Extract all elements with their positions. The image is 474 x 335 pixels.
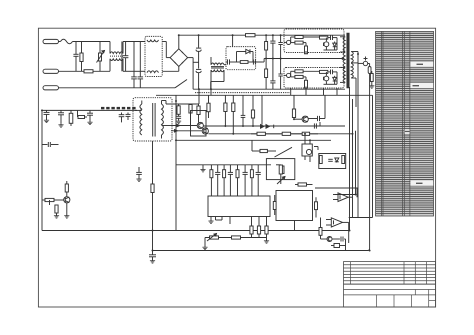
- resistor R22: [236, 165, 239, 196]
- switch S2: [275, 147, 293, 157]
- wire: [294, 221, 296, 231]
- trimmer R27: [277, 176, 285, 184]
- wire: [42, 110, 137, 230]
- capacitor C34: [241, 95, 246, 126]
- snubber network: [226, 47, 256, 70]
- varistor RV1: [97, 42, 105, 72]
- capacitor C30: [136, 167, 142, 181]
- bridge rectifier VD1: [170, 49, 188, 67]
- wire arrow: [171, 124, 197, 126]
- ground: [54, 215, 59, 219]
- wire: [121, 42, 123, 72]
- switch cell Q2 group: [284, 68, 344, 89]
- wire: [42, 230, 350, 232]
- wire: [229, 217, 231, 225]
- resistor R36: [50, 200, 59, 215]
- wire: [352, 99, 354, 218]
- wire: [203, 125, 345, 127]
- capacitor C31: [149, 251, 156, 263]
- wire: [166, 42, 170, 58]
- transistor V4: [54, 197, 70, 203]
- wire gate1: [290, 88, 292, 95]
- diode VD2: [237, 49, 254, 62]
- capacitor C6: [196, 35, 201, 68]
- fuse F1: [61, 39, 111, 44]
- transistor V1: [197, 122, 203, 128]
- capacitor C41 upper: [278, 35, 282, 58]
- connector pin X1.2: [43, 69, 84, 73]
- resistor R30: [257, 217, 260, 238]
- capacitor C33: [332, 237, 346, 242]
- capacitor C18: [308, 95, 325, 121]
- resistor R47: [207, 95, 210, 118]
- driver box: [191, 111, 207, 137]
- transformer T1 core: [347, 33, 350, 88]
- resistor R33: [232, 236, 241, 239]
- optocoupler U2: [302, 134, 312, 162]
- wire: [153, 250, 369, 252]
- resistor R1: [80, 42, 83, 72]
- wire: [355, 78, 357, 107]
- wire: [175, 95, 177, 230]
- capacitor bank C14: [101, 107, 136, 109]
- inductor L3: [358, 57, 370, 66]
- capacitor C41 lower: [278, 59, 282, 90]
- resistor R34: [65, 181, 68, 196]
- PWM controller U1: [208, 196, 270, 217]
- wire dashed: [195, 92, 290, 94]
- resistor R11: [232, 95, 235, 134]
- resistor R16: [319, 156, 322, 164]
- ground: [0, 0, 1, 1]
- resistor R35: [42, 198, 54, 201]
- feedback box U6a: [266, 159, 294, 180]
- resistor R43: [246, 34, 256, 37]
- resistor R42: [189, 104, 192, 126]
- resistor R40: [281, 166, 284, 174]
- transformer T2: [211, 57, 226, 89]
- wire: [166, 101, 199, 105]
- wire: [178, 66, 180, 71]
- connector pin X1.1: [43, 39, 61, 43]
- capacitor C21: [215, 165, 220, 196]
- wire gate2: [305, 88, 307, 95]
- wire: [357, 54, 359, 218]
- capacitor C23: [228, 165, 233, 196]
- wire: [261, 95, 263, 124]
- resistor R45: [176, 104, 181, 124]
- resistor R17: [342, 156, 345, 164]
- sub box U3: [319, 154, 346, 169]
- resistor R10: [224, 95, 227, 126]
- resistor R14: [302, 132, 318, 135]
- capacitor C13: [87, 110, 93, 124]
- capacitor C40 upper: [270, 35, 275, 58]
- resistor R4 upper: [265, 35, 268, 58]
- capacitor C19: [328, 159, 333, 161]
- resistor R46: [369, 71, 374, 88]
- wire: [176, 165, 271, 168]
- transistor V2: [202, 128, 208, 134]
- resistor R2: [84, 70, 110, 73]
- resistor R3: [233, 61, 253, 64]
- capacitor C2: [123, 42, 129, 72]
- wire: [232, 35, 234, 46]
- resistor R26: [279, 165, 282, 176]
- ground: [202, 238, 207, 250]
- wire trimmer row: [252, 140, 276, 152]
- capacitor C12: [58, 110, 64, 127]
- resistor R37: [151, 184, 154, 193]
- capacitor C10: [368, 64, 371, 74]
- resistor R29: [250, 217, 253, 238]
- wire +bus: [179, 34, 345, 36]
- op-amp U5: [326, 218, 349, 227]
- capacitor C40 lower: [270, 59, 275, 90]
- wire: [315, 187, 358, 189]
- capacitor C9: [253, 59, 262, 64]
- resistor R38: [319, 218, 322, 240]
- small box U8: [331, 244, 346, 248]
- wire: [176, 139, 331, 141]
- wire: [156, 94, 373, 96]
- trimmer R32: [207, 234, 219, 242]
- sub box U6: [273, 191, 312, 221]
- diode VD4: [335, 158, 339, 162]
- wire: [372, 95, 374, 217]
- capacitor C16: [119, 113, 125, 123]
- wire: [152, 141, 154, 251]
- transistor V5: [321, 237, 333, 242]
- capacitor C1: [73, 42, 78, 72]
- resistor R44: [78, 110, 88, 118]
- capacitor C25: [243, 165, 248, 196]
- wire gate4: [336, 88, 338, 95]
- resistor R18: [210, 165, 213, 196]
- capacitor C27: [256, 165, 261, 196]
- wire: [357, 52, 359, 55]
- wire: [314, 147, 318, 151]
- transistor V3: [294, 116, 308, 122]
- resistor R9: [197, 104, 200, 122]
- ground: [64, 203, 69, 218]
- connector pin X1.3: [43, 86, 175, 90]
- resistor R15: [292, 95, 295, 119]
- wire: [276, 164, 281, 166]
- title block: [344, 262, 436, 307]
- capacitor C4: [131, 42, 137, 88]
- switch S1: [175, 80, 187, 88]
- wire: [0, 0, 1, 1]
- capacitor C7: [196, 69, 201, 89]
- resistor R24: [250, 165, 253, 196]
- common-mode choke L1: [110, 42, 145, 72]
- resistor R31: [265, 217, 268, 238]
- wire: [0, 0, 1, 1]
- wire: [335, 131, 356, 195]
- wire: [349, 217, 373, 219]
- wire -bus: [193, 88, 345, 90]
- resistor R8: [69, 110, 73, 126]
- resistor R4 lower: [265, 59, 268, 90]
- wire: [349, 87, 351, 231]
- common-mode choke L2: [145, 36, 179, 76]
- ground: [200, 168, 205, 172]
- wire: [356, 188, 358, 197]
- resistor R12: [251, 132, 282, 135]
- capacitor C32: [42, 142, 59, 147]
- wire arrow: [171, 130, 202, 132]
- wire: [188, 58, 199, 90]
- capacitor C36: [0, 0, 1, 1]
- ground: [264, 238, 269, 244]
- wire: [198, 95, 200, 104]
- wire: [345, 239, 347, 251]
- capacitor C11: [44, 110, 50, 122]
- capacitor C5: [134, 42, 145, 88]
- switch cell Q1 group: [284, 29, 344, 54]
- capacitor C17: [126, 113, 131, 121]
- transformer T1 primary: [340, 37, 345, 83]
- wire: [208, 133, 352, 135]
- resistor R20: [223, 165, 226, 196]
- wire list table: [376, 31, 434, 216]
- transformer T1 secondary: [351, 52, 358, 79]
- transformer T3: [133, 98, 172, 141]
- ground: [208, 217, 213, 224]
- resistor R28: [295, 183, 313, 186]
- wire: [178, 35, 180, 49]
- resistor R13: [282, 132, 302, 135]
- wire: [205, 237, 267, 239]
- capacitor C8: [226, 59, 233, 64]
- resistor R41: [315, 197, 318, 217]
- wire: [198, 89, 200, 95]
- resistor R39: [251, 95, 254, 126]
- capacitor C35: [314, 122, 320, 129]
- wire: [348, 222, 350, 243]
- wire: [153, 74, 370, 251]
- op-amp U4: [333, 193, 353, 202]
- diode VD3: [261, 125, 274, 129]
- wire: [216, 217, 223, 221]
- wire phase: [253, 58, 344, 62]
- wire gate3: [323, 88, 325, 95]
- wire: [210, 89, 212, 95]
